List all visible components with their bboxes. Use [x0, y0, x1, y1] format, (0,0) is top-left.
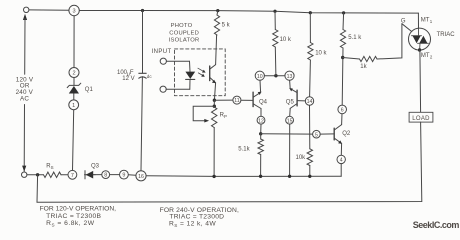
pin 8 — [102, 171, 110, 179]
svg-text:SeekIC.com: SeekIC.com — [413, 220, 460, 230]
wire emitter to pin 11 — [214, 99, 233, 101]
node 10k c rail junction — [308, 175, 311, 178]
svg-text:6: 6 — [341, 108, 344, 114]
pin 16 — [136, 171, 146, 181]
svg-text:RS = 12 k, 4W: RS = 12 k, 4W — [169, 220, 216, 227]
wire Q5 bottom to pin 15 — [289, 108, 292, 116]
wire junction to 1k — [343, 58, 360, 60]
svg-text:5 k: 5 k — [222, 23, 231, 29]
svg-text:Q1: Q1 — [85, 87, 94, 93]
svg-text:2: 2 — [72, 71, 75, 77]
wire 1k to gate — [377, 24, 402, 59]
pin 4 — [337, 155, 345, 163]
svg-text:RS = 6.8k, 2W: RS = 6.8k, 2W — [46, 220, 95, 227]
svg-text:Q2: Q2 — [342, 131, 351, 137]
wire pin 5 to Q2 base — [320, 133, 334, 135]
wire MT2 to load — [419, 50, 422, 112]
wire 10k a down — [274, 11, 277, 76]
node top rail / C1 junction — [141, 9, 144, 12]
svg-text:5.1 k: 5.1 k — [348, 35, 362, 41]
svg-text:PHOTO: PHOTO — [171, 23, 193, 29]
svg-text:11: 11 — [234, 98, 239, 104]
pin 9 — [120, 170, 129, 179]
node 10-13 junction — [274, 74, 277, 77]
node 15 rail junction — [288, 175, 291, 178]
pin 2 — [69, 68, 79, 78]
svg-text:TRIAC: TRIAC — [437, 32, 456, 38]
wire Q4 bottom to pin 12 — [260, 109, 262, 117]
pin 6 — [338, 105, 347, 114]
wire Q5 base to pin 14 — [297, 100, 305, 102]
svg-text:G: G — [401, 18, 406, 24]
pin 10 — [255, 71, 264, 80]
transistor Q4 — [253, 92, 261, 109]
label PHOTO COUPLED ISOLATOR — [169, 23, 200, 43]
node 12 junction — [259, 132, 262, 135]
wire 5k top — [216, 11, 219, 15]
wire Q4 top to pin 10 — [259, 80, 262, 92]
label FOR 240-V OPERATION — [160, 207, 239, 228]
svg-text:5.1k: 5.1k — [238, 147, 250, 153]
pin 7 — [68, 170, 77, 179]
pin 12 — [257, 116, 265, 124]
svg-text:P: P — [224, 114, 227, 119]
resistor 10k b — [308, 43, 313, 61]
light arrows — [198, 68, 206, 77]
wire AC left rail upper — [24, 19, 26, 75]
resistor 5.1k b — [258, 139, 263, 155]
LED D1 — [185, 61, 195, 89]
resistor 10k c — [307, 149, 312, 166]
wire pin 15 down to rail — [289, 124, 291, 176]
wire Q5 top to pin 13 — [289, 80, 292, 88]
svg-text:12: 12 — [258, 118, 264, 124]
pin 14 — [305, 97, 313, 105]
wire pin 10 to pin 13 — [264, 75, 285, 77]
node top rail / 5k junction — [216, 9, 219, 12]
svg-text:10 k: 10 k — [280, 37, 292, 43]
svg-text:16: 16 — [138, 174, 144, 180]
svg-text:INPUT: INPUT — [152, 49, 172, 55]
svg-text:10 k: 10 k — [315, 51, 327, 57]
svg-text:14: 14 — [307, 99, 313, 105]
node AC / return junction — [36, 173, 39, 176]
resistor 5.1k a — [340, 30, 345, 49]
pin 11 — [233, 96, 241, 104]
wire phototransistor collector to 5k — [216, 35, 217, 65]
transistor Q5 — [289, 88, 297, 109]
terminal AC bottom — [22, 166, 27, 178]
node top rail / 10k junction — [273, 10, 276, 13]
svg-text:FOR 120-V OPERATION,: FOR 120-V OPERATION, — [40, 205, 117, 212]
label MT2 — [421, 53, 433, 60]
wire emitter down to Rp — [213, 100, 215, 107]
node top rail / 10k b junction — [309, 11, 312, 14]
node 5.1k b rail junction — [259, 175, 262, 178]
pin 1 — [69, 100, 79, 110]
node MT2 — [418, 48, 421, 51]
resistor 5k — [214, 15, 219, 35]
svg-text:MT: MT — [421, 53, 430, 59]
triac circle — [409, 28, 431, 50]
pin 15 — [286, 116, 294, 124]
svg-text:4: 4 — [340, 158, 343, 164]
node Rp top junction — [213, 105, 216, 108]
wire input bottom — [166, 88, 190, 90]
svg-text:8: 8 — [104, 173, 107, 179]
resistor 1k — [360, 56, 378, 61]
wire top rail — [29, 10, 418, 13]
label 100uF 12V dc — [117, 70, 152, 82]
svg-text:dc: dc — [147, 74, 153, 79]
pin 13 — [285, 71, 294, 80]
svg-text:10k: 10k — [296, 155, 307, 161]
svg-text:Q3: Q3 — [91, 164, 100, 170]
diode Q3 — [85, 171, 96, 179]
svg-text:2: 2 — [430, 55, 433, 60]
svg-text:Q5: Q5 — [286, 99, 295, 105]
wire AC left rail lower — [23, 105, 25, 172]
svg-text:15: 15 — [287, 118, 293, 124]
wire input top — [166, 60, 189, 62]
label 120V OR 240V AC — [16, 76, 34, 102]
node emitter junction — [213, 99, 216, 102]
wire Q2 collector to pin 6 — [341, 114, 343, 125]
svg-text:10: 10 — [257, 74, 263, 80]
wire MT1 lead — [417, 13, 419, 28]
wire pin 12 to flipflop rail — [260, 124, 262, 134]
zener diode Q1 — [67, 83, 81, 93]
capacitor C1 100uF — [139, 73, 146, 78]
svg-text:3: 3 — [73, 9, 76, 15]
wire 5.1k a branch — [342, 13, 343, 105]
wire Q2 emitter to pin 4 — [340, 143, 342, 155]
svg-text:TRIAC = T2300B: TRIAC = T2300B — [46, 213, 101, 220]
svg-text:S: S — [51, 165, 54, 170]
wire 10k b branch — [309, 13, 312, 177]
pin 5 — [313, 130, 321, 138]
svg-text:5: 5 — [315, 132, 318, 138]
node Rp rail junction — [212, 175, 215, 178]
svg-text:COUPLED: COUPLED — [169, 30, 199, 36]
wire 5.1k b leads — [260, 134, 262, 177]
svg-text:1: 1 — [430, 19, 433, 24]
wire gate diagonal — [402, 24, 412, 32]
svg-text:13: 13 — [287, 74, 293, 80]
load box — [409, 112, 433, 122]
triac triangles — [412, 28, 429, 50]
pin 3 — [69, 5, 79, 15]
optocoupler dashed box — [175, 49, 226, 96]
wire pin 4 to rail — [340, 164, 342, 177]
terminal AC top — [23, 7, 29, 20]
wire bottom left rail — [27, 175, 341, 177]
phototransistor — [210, 65, 216, 84]
svg-text:MT: MT — [421, 17, 430, 23]
wire junction to pin 5 — [261, 133, 313, 135]
svg-text:9: 9 — [122, 173, 125, 179]
svg-text:ISOLATOR: ISOLATOR — [169, 37, 200, 43]
wire load return — [37, 122, 422, 202]
wire Rp bottom to rail — [213, 128, 215, 177]
label RP — [220, 112, 227, 119]
node 5.1k 1k junction — [341, 56, 344, 59]
node top rail / 5.1k junction — [342, 11, 345, 14]
label FOR 120-V OPERATION — [40, 205, 117, 227]
terminal input bottom — [160, 86, 166, 92]
svg-text:LOAD: LOAD — [412, 116, 430, 122]
svg-text:12 V: 12 V — [122, 76, 134, 82]
svg-text:AC: AC — [20, 96, 29, 103]
wire capacitor branch — [141, 11, 143, 171]
resistor RS — [44, 172, 62, 177]
label MT1 — [421, 17, 433, 24]
wire pin 11 to Q4 base — [241, 99, 253, 101]
svg-text:1k: 1k — [360, 64, 367, 70]
terminal input top — [160, 58, 166, 64]
transistor Q2 — [334, 125, 342, 144]
svg-text:TRIAC = T2300D: TRIAC = T2300D — [169, 213, 224, 220]
svg-text:1: 1 — [72, 103, 75, 109]
svg-text:Q4: Q4 — [259, 99, 268, 105]
potentiometer RP — [193, 106, 217, 127]
wire zener branch — [73, 16, 75, 171]
label RS — [46, 164, 53, 171]
wire phototransistor emitter down — [214, 83, 215, 101]
resistor 10k a — [273, 30, 278, 48]
svg-text:7: 7 — [71, 173, 74, 179]
